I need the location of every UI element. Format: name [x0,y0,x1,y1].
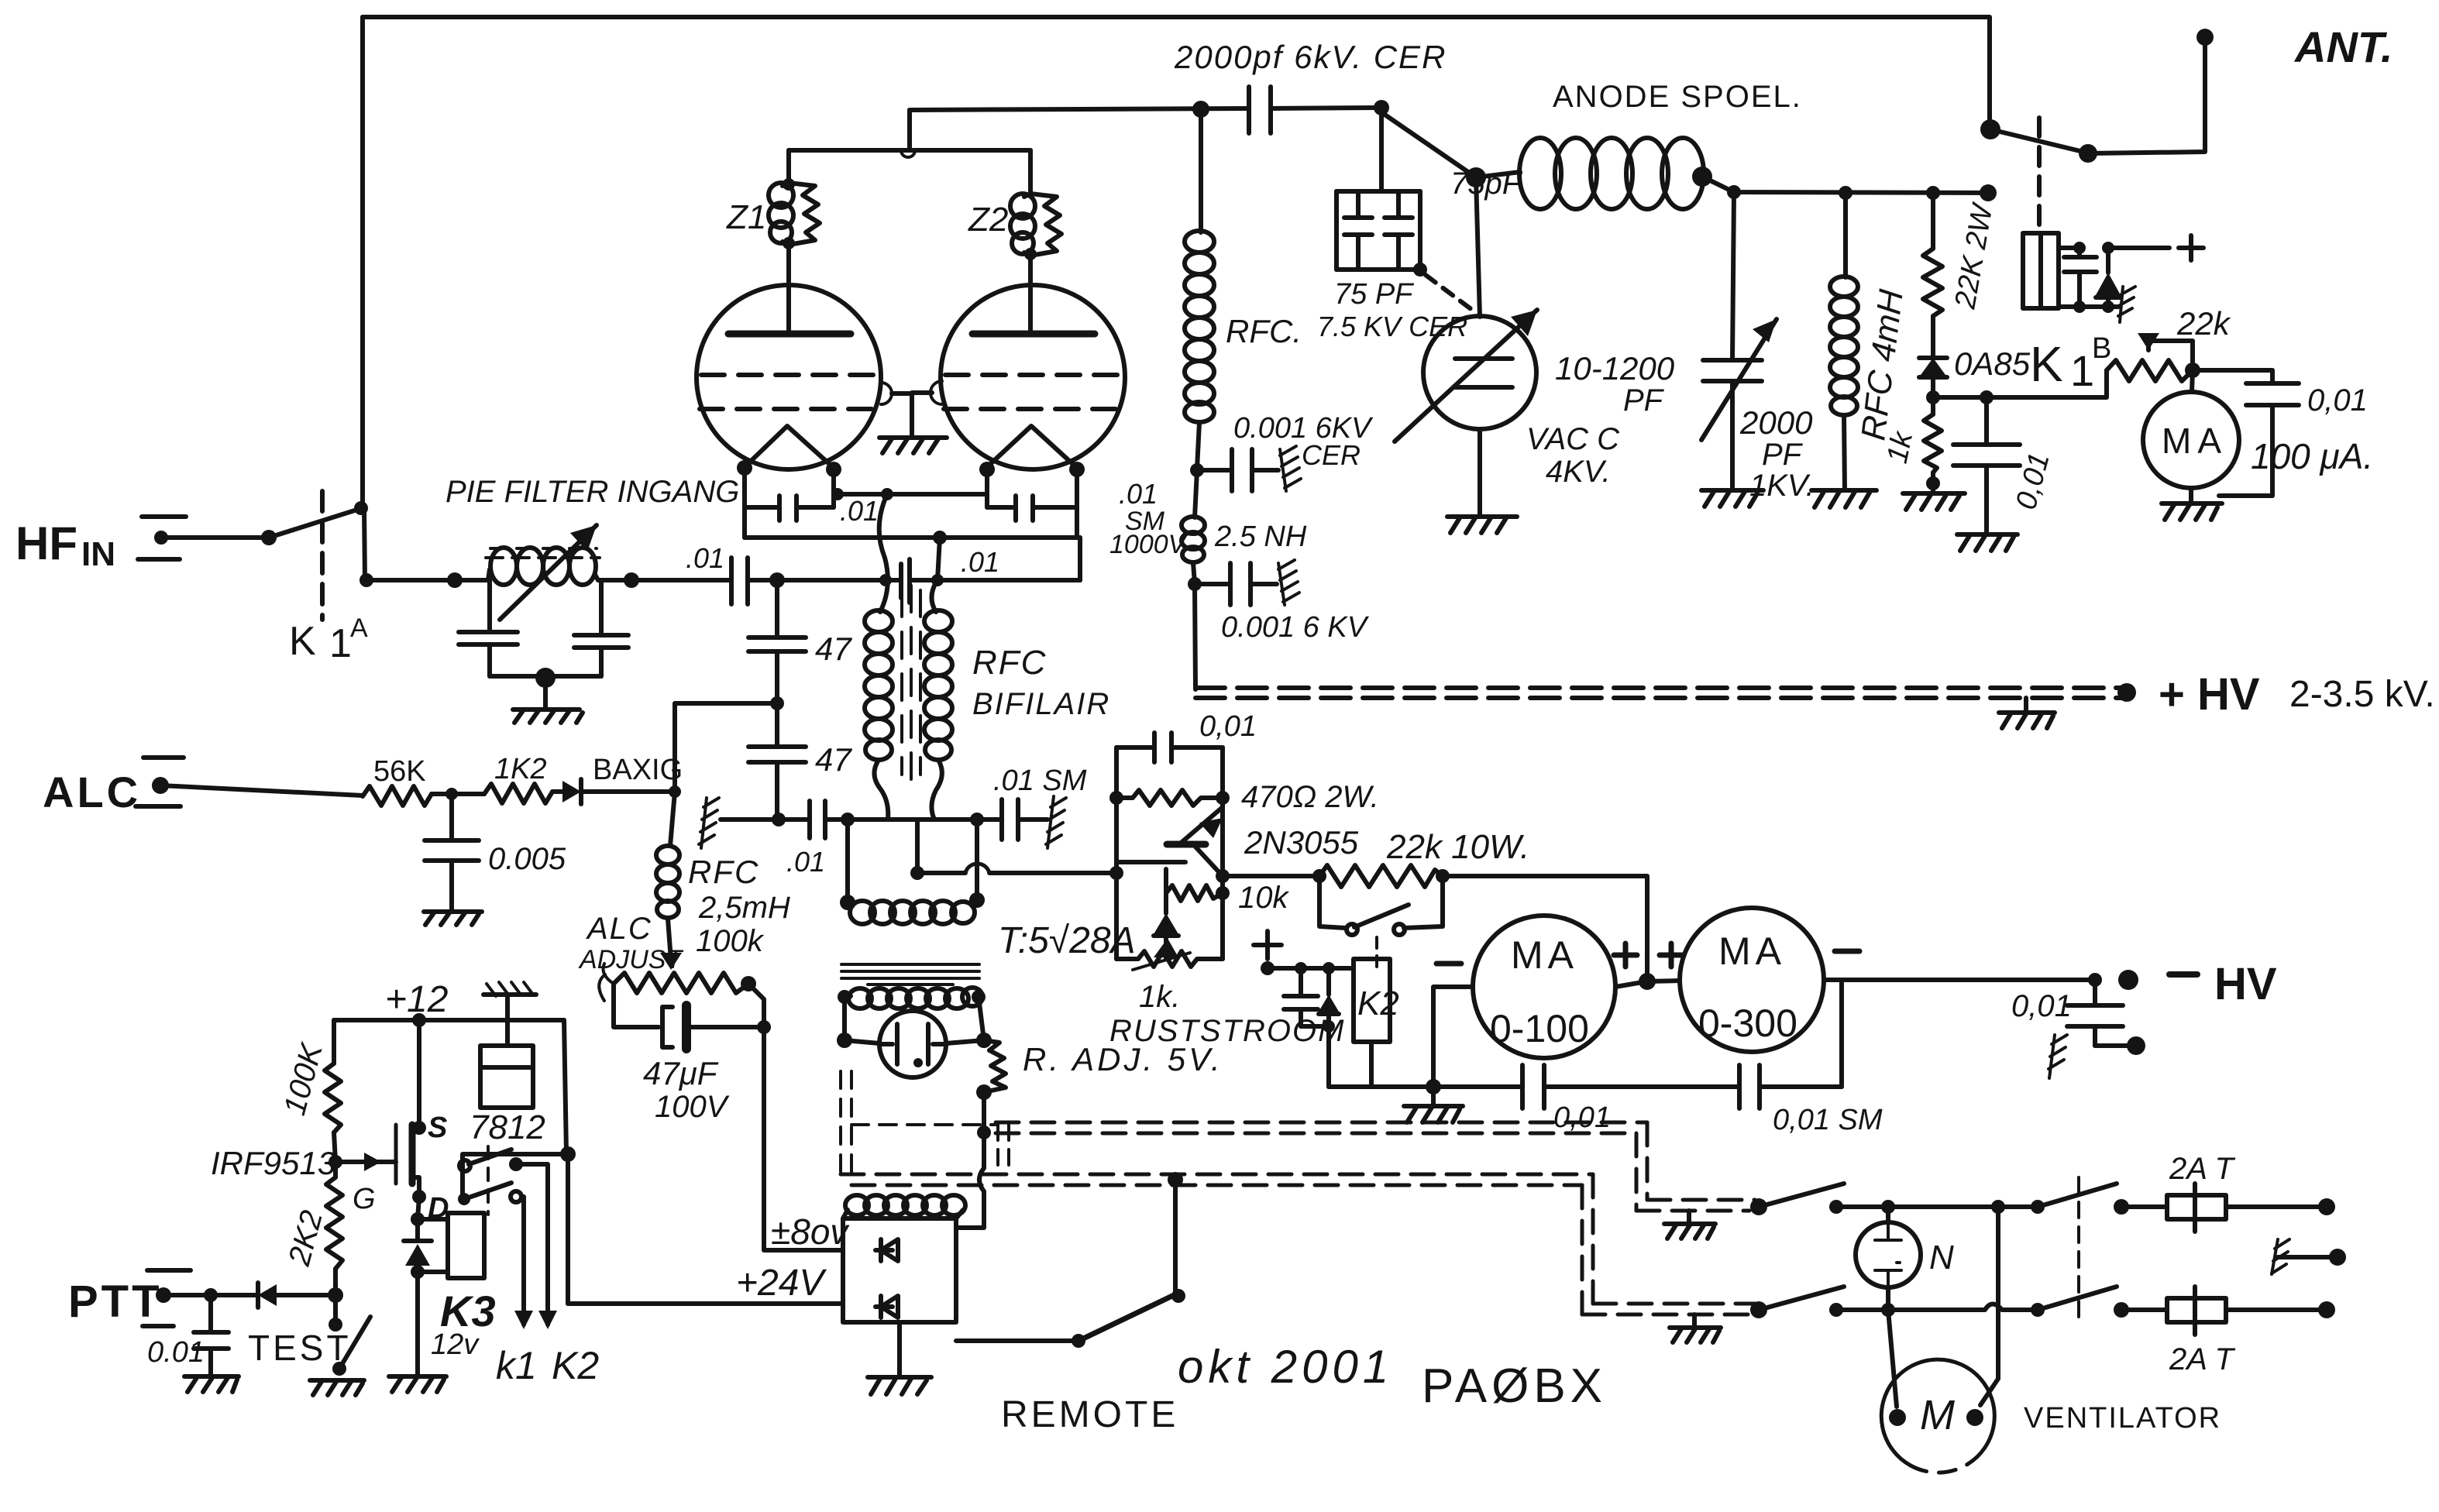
resistor 2K2 [326,1162,342,1295]
switch K1B antenna relay pole node [1980,119,2000,139]
svg-text:1k: 1k [1881,428,1920,466]
vac cap arrow [1395,310,1537,442]
svg-text:0.001 6 KV: 0.001 6 KV [1221,611,1370,644]
contact 2 circle [511,1191,521,1202]
wire contact2 to k1 arrow [521,1197,524,1325]
fuse 2A T lower [2167,1287,2226,1335]
svg-text:BIFILAIR: BIFILAIR [972,687,1110,721]
svg-text:RFC: RFC [972,644,1047,682]
node K3 top [411,1212,425,1226]
svg-text:.01 SM: .01 SM [993,765,1087,797]
node R adj bottom [976,1084,992,1100]
capacitor 75pf doorknob pair [1336,191,1420,270]
resistor 1k [1924,397,1942,483]
wire K3 to ground [415,1272,420,1376]
svg-text:1KV.: 1KV. [1749,469,1815,503]
neon lamp N circle [1856,1222,1921,1287]
wire primary right drop [979,997,984,1040]
node -HV line junction [2088,973,2102,987]
node 7812 output junction [560,1146,576,1162]
wire R adj down to dashed junction [982,1092,986,1132]
switch mains upper arm [1759,1184,1844,1207]
wire Z2 top lead [1028,150,1033,194]
node gate junction [329,1155,342,1169]
label minus meter1 [1436,961,1461,967]
wire secondary left riser [845,820,850,902]
svg-text:.01: .01 [1119,478,1158,510]
inductor anode spoel [1476,138,1704,209]
meter M2 circle MA 0-300 [1680,908,1824,1052]
inductor 2.5 MH small choke [1182,470,1205,583]
node K1B contact [2079,144,2097,163]
wire 75pf node to coil node [1381,112,1476,177]
wire output junction to pole column [463,1154,568,1199]
node 22k right [1436,869,1450,883]
wire pot left down to 47uF [614,984,659,1027]
node mains switch lower pole [1750,1301,1767,1318]
node V2 cathode right [1069,462,1085,477]
wire motor leads [1888,1310,1897,1407]
wire ALC to 56K [160,785,363,796]
relay coil K1B box [2023,233,2059,308]
node switch pole K1A [261,530,277,545]
switch TEST arm [332,1317,370,1376]
wire junction down to +24V line [566,1154,570,1304]
wire 56K to junction [432,792,484,796]
arrow variable tuning through pi coil [500,525,597,620]
ground pi filter [513,678,583,723]
terminal AC lower [2318,1301,2335,1318]
node lamp left [837,1033,852,1048]
node grid line dot right [931,574,944,586]
capacitor pi filter right C [574,635,628,676]
node RFC top [1192,101,1209,118]
svg-text:47μF: 47μF [643,1055,719,1091]
node anode coil left [1466,167,1486,187]
svg-text:REMOTE: REMOTE [1001,1394,1178,1435]
node snubber bottom [1323,1020,1335,1033]
node grid line junction [769,572,785,588]
chassis hatch -HV cap [2049,1035,2067,1078]
svg-text:VENTILATOR: VENTILATOR [2024,1402,2221,1435]
dashed run upper pair [996,1122,1647,1133]
wire +12 rail [334,1018,564,1022]
switch REMOTE arm [1078,1296,1172,1341]
dashed link to vacuum cap [1426,275,1472,310]
svg-text:.01: .01 [840,495,879,527]
svg-text:1: 1 [329,621,352,666]
node diode top [2102,242,2114,254]
chassis hatch line A left [699,798,719,848]
svg-text:10-1200: 10-1200 [1555,350,1675,387]
resistor 1K2 [484,784,552,803]
svg-text:.01: .01 [961,546,999,578]
svg-text:RFC.: RFC. [1226,313,1302,349]
wire V2 right drop to grid line [1078,538,1082,580]
node second switch lower pole [2031,1303,2045,1317]
resistor 22k 10W [1319,865,1443,887]
capacitor 2000pf 6kV blocking [1249,87,1271,133]
svg-text:IN: IN [81,535,115,573]
ground vac cap [1447,517,1517,533]
ground RFC 4mH [1811,490,1877,507]
node V1 cathode left [737,460,752,476]
chassis hatch line A right [1046,796,1066,848]
switch K3 contact arm 1 [469,1149,511,1164]
svg-text:IRF9513: IRF9513 [211,1145,335,1181]
wire K3 leads [418,1219,448,1272]
svg-text:Z1: Z1 [726,198,766,236]
wire to fuse1 [2121,1204,2167,1209]
capacitor 0,01 block top [1116,733,1223,762]
relay coil K3 box [448,1213,484,1278]
wire Z1 to tube1 anode [786,245,791,333]
switch bypass contact circles [1347,924,1357,935]
node motor left top [1881,1303,1895,1317]
node fuse2 left [2114,1302,2129,1318]
capacitor 47 lower [748,747,806,820]
relay coil K2 box [1354,959,1390,1042]
node output dot [624,572,639,588]
wire left vertical from top bus to K1A switch [360,17,365,507]
wire Z2 to tube2 anode [1028,256,1033,333]
svg-text:10k: 10k [1238,881,1289,915]
node secondary left [840,895,855,910]
node pi coil right leg [599,580,604,635]
svg-text:100 μA.: 100 μA. [2251,436,2373,476]
ground mains lower run [1670,1314,1721,1342]
svg-text:ANT.: ANT. [2293,22,2393,71]
wire mid node to meter2 [1647,981,1680,981]
node 22k left [1312,869,1326,883]
svg-text:PF: PF [1623,383,1665,418]
pilot lamp circle [879,1011,946,1077]
ground meter [2162,503,2222,520]
node Z1 bottom [783,237,795,249]
node 75pf bottom [1413,263,1427,277]
relay K1A dashed actuator line [320,491,325,620]
svg-text:ALC: ALC [586,912,652,946]
node +12 source junction [412,1013,426,1027]
inductor RFC bifilair right winding [924,580,952,820]
inductor RFC 2.5mH ALC feed [656,792,679,960]
svg-text:47: 47 [815,741,852,778]
ground mains upper run [1664,1211,1715,1239]
svg-text:HF: HF [15,517,77,569]
chassis hatch upper 0.001 [1280,446,1301,491]
capacitor 47uF 100V electrolytic [662,1005,764,1049]
node mains switch upper pole [1750,1198,1767,1215]
node pi coil left leg [487,580,492,632]
node source S [412,1121,426,1135]
relay contacts K3a pole2 [458,1193,470,1205]
arrow K2 feed [538,1311,557,1329]
svg-text:0,01: 0,01 [2010,449,2056,513]
wire contact to pi-filter line [364,508,365,580]
wire coupling cap to grid line [748,578,884,582]
wire coil to HV feed line [1702,177,1988,193]
relay K1B dashed actuator [2037,118,2042,232]
svg-text:22k 10W.: 22k 10W. [1386,828,1529,866]
terminal AC upper [2318,1198,2335,1215]
wire earth to terminal [2278,1255,2334,1259]
wire fuse2 to terminal [2226,1308,2327,1312]
wire anode bus of tubes [907,110,912,150]
node line A x1261 [970,813,984,826]
label - HV [2169,971,2197,978]
svg-text:CER: CER [1302,439,1361,471]
variable capacitor 2000pf 1kV tank [1703,192,1762,490]
capacitor pi filter left C [459,632,518,676]
wire choke column to HV bus [1195,584,1195,689]
dashed actuator K3 contacts [487,1146,490,1215]
wire coil node to vac cap [1476,177,1480,317]
wire meter bottom rail [1329,1084,1842,1089]
capacitor 0,01 across meter [2193,370,2299,496]
capacitor 0,01 SM meter2 [1739,1065,1760,1108]
resistor 1k ruststroom pot [1116,951,1223,967]
wire K1B coil bottom [2059,304,2118,309]
lamp electrodes [881,1024,944,1067]
terminal plus K1B [2179,235,2203,260]
svg-text:0,01: 0,01 [1553,1101,1611,1134]
svg-text:.01: .01 [686,542,724,574]
node 47 chain mid [775,651,779,747]
svg-text:1000V: 1000V [1109,530,1189,559]
wire grid line right portion [884,578,1080,582]
svg-text:S: S [428,1112,447,1144]
wire pot right to +80 riser [748,984,764,1027]
capacitor 0.005 [425,794,479,910]
capacitor .01 line A [810,801,825,838]
svg-text:k1: k1 [496,1344,537,1387]
svg-text:0,01: 0,01 [2011,989,2072,1023]
dashed actuator bypass switch [1375,937,1378,970]
capacitor .01 drive line [901,559,910,603]
wire rail right rise to meter2 lead [1839,980,1844,1087]
pot wiper 22k [2138,333,2193,370]
ground TEST [310,1380,364,1395]
node rail ground junction [1426,1079,1441,1094]
wire K1B plus lead [2108,246,2169,250]
resistor 10k [1166,885,1223,901]
svg-text:.01: .01 [786,846,825,878]
regulator 7812 box [480,1046,533,1108]
arrow through tank cap [1701,319,1777,440]
tube V2 anode plate [972,331,1095,338]
capacitor .01 SM line A [1002,799,1018,840]
wire meter1 left lead [1433,987,1473,1087]
svg-text:0,01 SM: 0,01 SM [1773,1104,1883,1136]
capacitor 0.01 PTT [194,1295,229,1376]
wire primary left drop [842,997,847,1040]
svg-text:RFC: RFC [688,854,759,890]
diode K2 snubber [1319,968,1339,1087]
transistor block right rail [1220,747,1225,959]
ground meter rail [1404,1087,1463,1122]
inductor transformer primary [845,988,982,1009]
svg-text:G: G [353,1183,376,1215]
node diode bottom [2102,301,2114,313]
wire -HV cap to lower terminal [2095,1043,2131,1048]
dashed actuator mains double switch [2077,1177,2080,1317]
capacitor 0,01 meter1 [1522,1065,1544,1108]
tube V2 envelope [941,285,1125,469]
switch second upper arm [2038,1184,2117,1207]
transistor 2N3055 regulator block left rail [1114,747,1119,959]
wire Z1 top lead [786,150,791,183]
svg-text:N: N [1929,1239,1954,1277]
wire anode bus to blocking cap [910,108,1249,110]
switch TEST fixed contact [333,1295,338,1318]
pot arrow ruststroom [1133,953,1190,970]
dashed run lower corner down [1582,1174,1593,1314]
node 1k bottom [1926,476,1940,490]
tube V1 cathode [745,426,834,468]
inductor RFC anode choke [1185,109,1214,469]
resistor ALC adjust pot [614,973,748,993]
ground 1k [1903,483,1965,510]
capacitor 0.001 6kV lower [1195,563,1277,605]
node inner link left [831,488,844,500]
tube V1 grid dashed [701,373,877,377]
transformer core lines [841,964,979,985]
wire cathode line A [721,817,1047,822]
resistor 470 ohm 2W [1116,790,1223,806]
diode K1B coil [2096,248,2121,307]
node line A x1094 [841,813,855,826]
switch K1A arm [269,509,359,538]
node AC upper line left [1829,1200,1843,1214]
svg-text:HV: HV [2214,959,2277,1009]
node V2 cathode left [979,462,995,477]
capacitor .01 input coupling [731,558,748,604]
parasitic suppressor Z1 resistor [789,183,820,245]
meter M1 circle MA 0-100 [1473,916,1615,1058]
rectifier box [843,1218,956,1322]
terminal -HV [2118,970,2138,990]
node K1A upper contact [354,501,368,515]
node block left at line B [1109,866,1123,880]
terminal -HV lower [2127,1036,2145,1055]
bifilar core dashed lines [902,586,920,779]
node meters mid [1639,973,1656,990]
node 47uF right [757,1020,771,1034]
svg-text:0-100: 0-100 [1490,1007,1589,1050]
wire bus drop to grid line [937,538,940,580]
wire top bus from HF relay to antenna relay [363,17,1990,124]
diode zener K3 [404,1219,432,1272]
node 75pf top [1374,100,1389,115]
resistor 22K 2W bleeder [1923,193,1942,358]
wire plus to K2 coil [1268,966,1354,971]
svg-text:Z2: Z2 [968,201,1008,239]
node PTT cap junction [204,1288,218,1302]
node AC lower left [1829,1303,1843,1317]
wire down with hop over mains dashes [956,1132,984,1228]
fuse 2A T upper [2167,1184,2226,1232]
wire rectifier right to remote switch [956,1338,1078,1343]
capacitor 0.001 6kV CER upper [1197,449,1278,491]
node inner link mid [881,488,893,500]
grid hook tube1 [881,383,892,404]
wire BAXIG riser to 47 chain node [675,703,777,792]
svg-text:MA: MA [2162,421,2227,461]
node BAXIG output [669,785,681,798]
capacitor 0.01 meter filter [1953,397,2020,534]
wire 22k bypass switch left drop [1319,876,1345,928]
svg-text:MA: MA [1718,930,1786,973]
grid hook tube2 [931,381,942,404]
svg-text:1: 1 [2070,346,2094,395]
svg-text:RFC 4mH: RFC 4mH [1854,287,1910,442]
svg-text:±8ov: ±8ov [771,1211,850,1252]
ground 0.01 meter filter [1957,534,2018,551]
wire PTT line [163,1293,258,1297]
resistor 100K [325,1020,341,1162]
node rfc4mh tap [1839,186,1852,200]
svg-text:K2: K2 [552,1344,599,1387]
pot wiper arrow ALC adjust [660,953,682,970]
node Z2 bottom [1024,248,1037,260]
svg-text:A: A [350,613,368,643]
node pi filter ground junction [535,668,556,688]
wire grids to ground [892,393,932,436]
wire block output to 22k [1223,874,1319,878]
capacitor K1B coil snubber [2064,248,2097,307]
node dashed run junction [977,1125,991,1139]
svg-text:100k: 100k [696,924,765,958]
switch K3 contact arm 2 [469,1183,511,1198]
terminal +HV [2117,683,2136,702]
dashed run lower to switch [1582,1304,1755,1314]
wire to fuse2 [2121,1308,2167,1312]
node anode coil right [1692,167,1712,187]
dashed connector verticals left [998,1125,1009,1174]
svg-text:0A85: 0A85 [1954,345,2031,382]
node block right at output [1216,869,1230,883]
meter MA 100uA circle [2143,392,2239,488]
relay contacts K3a pole1 [459,1160,470,1171]
node on input line 2 [447,572,463,588]
transistor FET IRF9513 [396,1020,419,1197]
node N lamp top [1881,1200,1895,1214]
transistor Q1 2N3055 [1116,807,1223,876]
capacitor 0,01 on -HV [2067,980,2123,1046]
wire pi filter bottom [490,674,601,679]
node secondary right [969,892,985,908]
node lamp right [976,1033,992,1048]
diode rectifier upper [875,1239,898,1261]
svg-text:M: M [1920,1392,1955,1438]
wire meter1 right lead [1615,981,1647,987]
svg-text:BAXIG: BAXIG [593,754,683,786]
svg-text:22K 2W: 22K 2W [1949,200,2000,311]
node remote contact [1171,1289,1185,1303]
svg-text:4KV.: 4KV. [1546,455,1611,489]
dashed run upper corner down [1636,1122,1647,1211]
node pot output [2185,363,2200,378]
wire meter bottom to ground [2189,488,2193,503]
wire vent riser [1980,1207,1998,1405]
pot left end curl [599,964,614,1001]
node Z1 top [783,178,795,191]
ground hatch above 7812 [483,982,536,1046]
diode PTT series pointing left [258,1283,335,1308]
capacitor 47 upper [748,580,806,651]
node snubber top [2073,242,2086,254]
node primary right [972,990,986,1004]
